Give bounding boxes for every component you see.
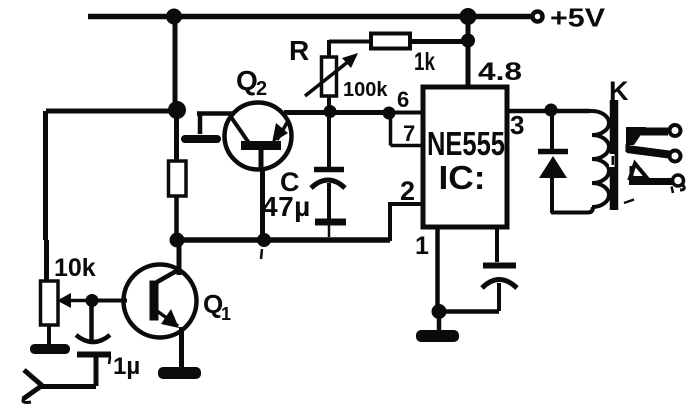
node H dot (pins 6/7) xyxy=(383,107,396,120)
tick mark below node D xyxy=(261,249,262,259)
svg-text:1k: 1k xyxy=(414,48,435,76)
wire IC pin 1 down xyxy=(435,227,440,306)
relay core bar xyxy=(610,100,619,210)
svg-text:1: 1 xyxy=(221,304,231,324)
svg-text:47µ: 47µ xyxy=(262,191,311,222)
transistor Q1 xyxy=(124,265,197,338)
stub terminal at Q2 base xyxy=(198,113,203,134)
node J2 dot (pin1/ground) xyxy=(432,304,447,319)
svg-text:IC:: IC: xyxy=(439,159,486,196)
svg-text:K: K xyxy=(609,76,629,106)
svg-text:4.8: 4.8 xyxy=(478,58,522,86)
node G dot (pot bottom on wire) xyxy=(324,105,337,118)
svg-text:2: 2 xyxy=(256,78,267,100)
node I dot (pin3 / diode) xyxy=(545,104,558,117)
wire Q1 emitter down xyxy=(179,327,184,368)
svg-text:1: 1 xyxy=(415,232,429,260)
wire Q1 base to node J xyxy=(92,299,127,303)
wire node B left and down to 10k pot xyxy=(46,111,177,281)
node J dot xyxy=(86,294,99,307)
relay coil K xyxy=(589,111,609,207)
wire pin 7 xyxy=(391,113,424,146)
potentiometer 10k xyxy=(41,281,91,345)
wire 1k to node E xyxy=(410,39,468,44)
input terminal arrow xyxy=(23,370,42,403)
wire pin 6 xyxy=(389,111,423,115)
+5V terminal circle xyxy=(533,12,543,22)
wire node A down to node B xyxy=(173,16,178,104)
svg-text:1µ: 1µ xyxy=(113,353,140,380)
node C junction dot xyxy=(170,233,185,248)
svg-text:100k: 100k xyxy=(343,79,388,101)
svg-text:2: 2 xyxy=(400,176,415,206)
relay contacts xyxy=(624,125,684,203)
svg-text:Q: Q xyxy=(236,65,258,96)
svg-text:3: 3 xyxy=(510,110,524,140)
diode D1 (flyback) xyxy=(538,111,568,213)
wire Q1 collector to node C xyxy=(177,240,182,275)
svg-text:10k: 10k xyxy=(54,254,96,282)
node E dot xyxy=(461,34,475,48)
resistor (vertical, below node B) xyxy=(174,114,179,161)
wire pin2 riser xyxy=(388,204,424,241)
svg-text:7: 7 xyxy=(403,121,415,146)
svg-text:NE555: NE555 xyxy=(427,125,505,162)
ground (10k pot) xyxy=(30,344,70,354)
wire Q2 collector to node D xyxy=(260,168,265,237)
wire bottom bus (node C to pin2 riser) xyxy=(177,237,390,243)
potentiometer R 100k xyxy=(305,40,371,111)
ground (Q1 emitter) xyxy=(158,367,201,379)
svg-text:+5V: +5V xyxy=(550,3,606,33)
wire node F to IC top xyxy=(466,16,471,87)
capacitor 1u xyxy=(76,303,111,386)
wire Q2 emitter to node G/H xyxy=(284,110,389,115)
capacitor (IC pin5 bypass) xyxy=(482,227,517,311)
svg-text:6: 6 xyxy=(397,87,409,112)
IC U1 NE555 xyxy=(423,87,507,227)
wire input to capacitor 1u xyxy=(40,384,96,389)
ground (below IC) xyxy=(437,318,442,330)
node F dot (on rail) xyxy=(460,8,477,25)
node A (rail / left branch junction) xyxy=(166,9,182,25)
transistor Q2 xyxy=(225,103,292,171)
svg-text:R: R xyxy=(289,35,309,66)
node B junction dot xyxy=(168,101,186,119)
wire cap to node J2 xyxy=(440,309,499,314)
wire diode anode to coil bottom xyxy=(551,207,593,213)
wire +5V top rail xyxy=(88,14,531,20)
wire pin 3 xyxy=(507,109,590,114)
capacitor C 47u xyxy=(311,113,346,237)
wire node B to Q2 base xyxy=(197,111,234,116)
node D junction dot (Q2 collector) xyxy=(257,233,271,247)
label 1u xyxy=(109,357,110,364)
resistor 1k xyxy=(371,34,410,49)
